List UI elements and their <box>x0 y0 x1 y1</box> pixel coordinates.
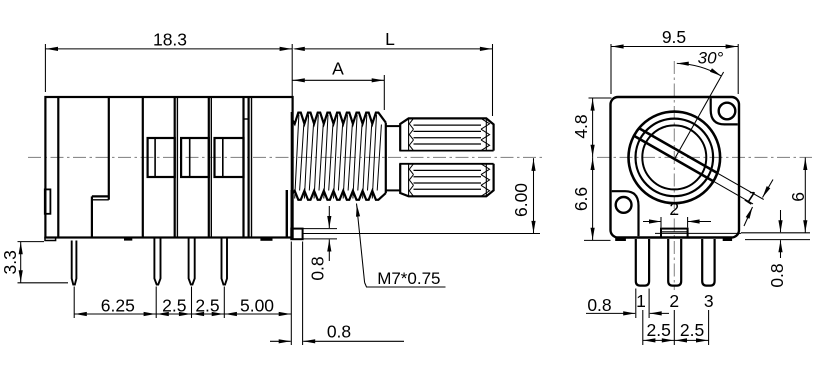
svg-text:0.8: 0.8 <box>308 256 328 280</box>
left face clip detail <box>45 189 51 213</box>
knurl chamfer boundary lines <box>408 118 410 150</box>
dim 6.00 <box>533 158 535 233</box>
dim L <box>295 48 493 50</box>
wafer window 2 <box>181 138 209 177</box>
thread profile bottom <box>292 191 386 200</box>
dim A <box>292 79 384 81</box>
pin 2 (front view) <box>668 239 681 286</box>
centerline horizontal (front view) <box>597 156 812 158</box>
dim 1 slot width arrows <box>763 180 774 198</box>
dim 0.8 foot width <box>270 340 291 342</box>
dim 2 extension lines <box>660 217 662 228</box>
mounting hole bottom-left <box>616 197 632 213</box>
knurl ridge lines upper <box>414 124 482 126</box>
svg-text:2.5: 2.5 <box>195 296 219 316</box>
svg-text:6.00: 6.00 <box>511 183 531 217</box>
wafer divider line <box>142 97 144 238</box>
bottom small bump <box>125 238 132 240</box>
svg-text:3: 3 <box>704 291 714 311</box>
dim 4.8 extension line <box>589 97 612 99</box>
dim 6.00 reference line <box>303 233 540 235</box>
dim 6 <box>804 157 806 232</box>
left bottom foot tab <box>45 238 56 241</box>
dim 0.8 bracket foot <box>328 206 330 228</box>
dim 2 <box>643 221 661 223</box>
slot line upper (front view) <box>639 128 717 173</box>
center tab (front view) <box>661 229 688 238</box>
shaft neck <box>386 125 400 127</box>
dim 4.8 <box>592 98 594 157</box>
svg-text:2.5: 2.5 <box>680 320 704 340</box>
svg-text:0.8: 0.8 <box>327 322 351 342</box>
dim 2.5 left <box>643 339 675 341</box>
svg-text:0.8: 0.8 <box>767 263 787 287</box>
svg-text:9.5: 9.5 <box>662 27 686 47</box>
svg-text:6.6: 6.6 <box>571 187 591 211</box>
threaded bushing face <box>291 112 293 201</box>
wafer divider pair 3 <box>242 97 244 238</box>
pin 4 (side view) <box>222 238 228 285</box>
svg-text:2.5: 2.5 <box>647 320 671 340</box>
bottom small tab <box>261 238 272 241</box>
bottom bump right (front view) <box>723 238 731 241</box>
dim 6 extension line <box>741 232 810 234</box>
pin pitch extension lines (side view) <box>73 287 75 319</box>
wafer window 3 <box>215 138 244 177</box>
dim L extension line <box>492 44 494 116</box>
dim 9.5 extension lines <box>610 44 612 94</box>
ear outline bottom-left <box>612 191 639 236</box>
svg-text:A: A <box>332 59 344 79</box>
svg-text:1: 1 <box>636 291 646 311</box>
mounting bracket strap <box>286 190 288 238</box>
knurl ridge lines lower <box>414 169 482 171</box>
dim 3.3 extension lines <box>18 241 45 243</box>
svg-text:6.25: 6.25 <box>101 296 135 316</box>
pin 2 (side view) <box>154 238 160 285</box>
wafer divider pair 1 <box>174 97 176 238</box>
dim 2.5 a <box>156 313 191 315</box>
thread end face <box>385 123 387 194</box>
svg-text:2.5: 2.5 <box>162 296 186 316</box>
dim 3.3 <box>20 242 22 283</box>
svg-text:30°: 30° <box>698 49 724 68</box>
dim 18.3 extension lines <box>44 44 46 92</box>
dim 9.5 <box>611 46 738 48</box>
knurl end chevrons <box>409 118 489 196</box>
dim 5.00 <box>224 313 291 315</box>
bottom bump left (front view) <box>616 238 625 241</box>
dim 0.8 right extension line <box>745 239 810 241</box>
shaft inner circle <box>642 125 706 189</box>
left end panel line <box>57 97 59 238</box>
svg-text:L: L <box>385 29 395 49</box>
seat reference line (front view) <box>655 232 741 234</box>
thread profile top <box>292 113 386 124</box>
pin 1 (front view) <box>636 239 649 286</box>
pin 3 (front view) <box>702 239 714 286</box>
dim 6.25 <box>74 313 156 315</box>
svg-text:3.3: 3.3 <box>0 250 20 274</box>
slot line lower (front view) <box>634 136 713 181</box>
knurled barrel outline <box>400 118 493 150</box>
centerline vertical (front view) <box>673 61 675 290</box>
wafer divider pair 2 <box>208 97 210 238</box>
pin 1 (side view) <box>72 241 77 285</box>
dim 0.8 bracket foot extension lines <box>304 228 338 230</box>
wafer window 1 <box>148 138 175 177</box>
thread helix lines <box>295 115 382 199</box>
dim 6.6 <box>592 157 594 240</box>
shaft outer circle <box>629 112 721 204</box>
svg-text:4.8: 4.8 <box>571 114 591 138</box>
svg-text:5.00: 5.00 <box>240 296 274 316</box>
ear outline top-right <box>711 98 738 124</box>
dim 0.8 pin width extension lines <box>635 289 637 319</box>
dim 2.5 b <box>192 313 225 315</box>
svg-text:18.3: 18.3 <box>153 30 187 50</box>
svg-text:6: 6 <box>788 192 808 202</box>
body outline (side view) <box>45 97 292 238</box>
dim 0.8 pin width <box>586 312 635 314</box>
dim 0.8 right <box>780 210 782 232</box>
dim A extension line <box>383 75 385 110</box>
bracket foot <box>291 229 302 240</box>
shaft middle circle <box>636 119 714 197</box>
shaft slot lines (side view) <box>399 150 493 152</box>
dim 2.5 right <box>674 339 708 341</box>
svg-text:2: 2 <box>669 291 679 311</box>
angle arc 30deg <box>677 63 722 76</box>
pin 3 (side view) <box>189 238 195 285</box>
centerline (side view axis) <box>28 156 545 158</box>
stepped internal wall <box>108 97 110 200</box>
30 degree construction line <box>674 72 723 159</box>
body outline (front view) <box>611 97 740 238</box>
dim 6.6 extension line <box>584 239 611 241</box>
svg-text:0.8: 0.8 <box>587 295 611 315</box>
dim 18.3 <box>45 48 292 50</box>
label M7*0.75 leader <box>357 204 365 283</box>
svg-text:M7*0.75: M7*0.75 <box>377 269 440 288</box>
top notch tick <box>244 118 249 120</box>
mounting hole top-right <box>719 103 736 120</box>
svg-text:2: 2 <box>669 199 679 219</box>
dim 2.5 pin pitch extension lines <box>642 310 644 345</box>
